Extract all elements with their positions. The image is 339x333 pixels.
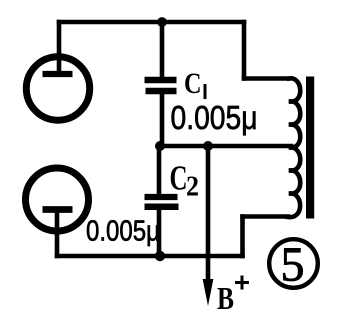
wire B+ feed	[206, 146, 211, 281]
core bar of L1	[306, 77, 314, 219]
capacitor C2 plates	[145, 197, 179, 207]
label C1	[184, 67, 207, 100]
node: C1/C2 junction on mid line	[155, 141, 165, 151]
wire mid line (coil tap to C1/C2 junction)	[160, 144, 291, 149]
wire C1 bottom lead	[160, 91, 165, 146]
label C2	[170, 160, 200, 203]
wire bottom rail	[57, 254, 243, 259]
wire C2 top lead	[157, 146, 162, 197]
wire C1 top lead	[160, 22, 165, 80]
wire tube V2 plate lead	[55, 212, 60, 256]
tube V1 plate	[43, 71, 73, 77]
svg-text:0.005μ: 0.005μ	[171, 99, 258, 136]
wire to coil top	[244, 76, 288, 81]
figure number badge 5	[269, 237, 318, 292]
node: B+ tap on mid line	[203, 141, 213, 151]
tube V1 envelope	[26, 57, 89, 120]
node: C2 / bottom rail junction	[155, 251, 165, 261]
svg-text:0.005μ: 0.005μ	[86, 216, 160, 248]
wire elbow down	[240, 217, 245, 257]
inductor L1 (tuned-winding, 6 loops)	[288, 78, 300, 217]
label B+	[217, 276, 249, 317]
wire top rail	[59, 20, 244, 25]
capacitor C1 plates	[145, 80, 177, 91]
svg-text:2: 2	[186, 172, 199, 203]
wire tube V1 plate lead	[57, 22, 62, 72]
svg-text:C: C	[184, 67, 202, 100]
svg-text:B: B	[217, 280, 234, 316]
wire coil bottom to elbow	[243, 214, 289, 219]
wire right drop from top rail	[242, 22, 247, 79]
B+ arrowhead	[203, 279, 214, 306]
wire C2 bottom lead	[157, 207, 162, 256]
tube V2 envelope	[26, 168, 89, 231]
svg-text:C: C	[170, 160, 188, 198]
svg-text:5: 5	[281, 237, 305, 292]
node: top rail / C1 junction	[157, 17, 167, 27]
tube V2 plate	[43, 206, 73, 213]
